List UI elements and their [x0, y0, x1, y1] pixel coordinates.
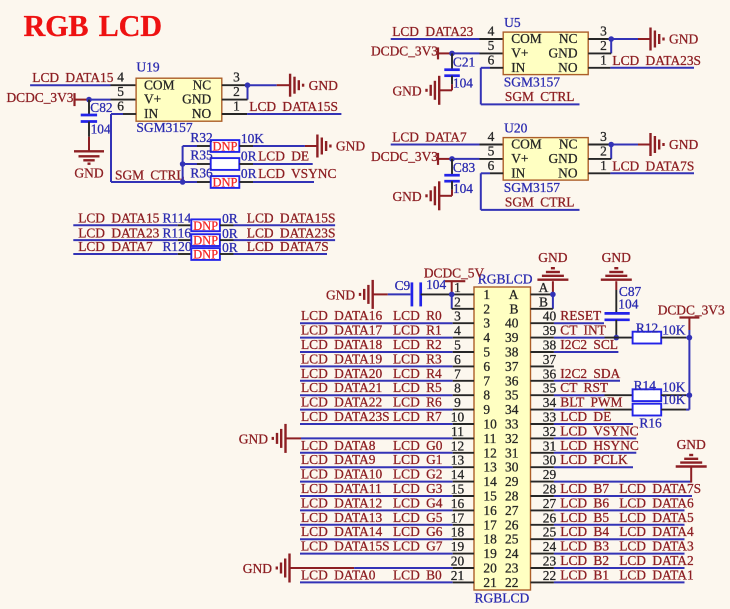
svg-text:15: 15: [451, 482, 465, 497]
wire U19 IN to SGM_CTRL: [111, 114, 183, 182]
wire C82 to GND: [88, 137, 90, 152]
svg-text:28: 28: [543, 482, 557, 497]
svg-text:LCD DATA22: LCD DATA22: [301, 395, 382, 410]
svg-text:26: 26: [505, 517, 519, 532]
svg-text:22: 22: [505, 575, 518, 590]
wire net LCD DATA14 to RGBLCD pin 18: [300, 538, 474, 540]
svg-text:LCD DATA19: LCD DATA19: [301, 351, 382, 366]
svg-text:18: 18: [451, 525, 465, 540]
svg-text:I2C2 SCL: I2C2 SCL: [560, 337, 618, 352]
svg-text:LCD DATA15: LCD DATA15: [32, 70, 113, 85]
svg-text:40: 40: [543, 309, 557, 324]
svg-text:24: 24: [543, 539, 557, 554]
wire U5 IN to SGM_CTRL: [481, 68, 580, 105]
svg-text:38: 38: [505, 345, 519, 360]
svg-text:LCD DATA17: LCD DATA17: [301, 323, 382, 338]
svg-text:SGM3157: SGM3157: [504, 74, 561, 89]
svg-text:9: 9: [454, 395, 461, 410]
svg-text:6: 6: [488, 158, 495, 173]
svg-text:U5: U5: [504, 15, 521, 30]
svg-text:14: 14: [451, 467, 465, 482]
wire RGBLCD pin B tie: [531, 294, 553, 308]
wire DCDC_3V3 to U20 pin 5: [452, 158, 503, 160]
wire GND to C9: [373, 293, 411, 295]
svg-text:R120: R120: [163, 239, 192, 254]
ground GND at R32: [317, 135, 365, 158]
svg-text:LCD DATA3: LCD DATA3: [619, 539, 694, 554]
junction U5 pins 3-2: [608, 36, 614, 42]
svg-text:LCD DATA7S: LCD DATA7S: [612, 158, 694, 173]
node LCD DATA8 / LCD G0: [301, 438, 443, 453]
wire net LCD DATA23S to RGBLCD pin 10: [300, 423, 474, 425]
svg-text:37: 37: [543, 352, 557, 367]
svg-text:LCD VSYNC: LCD VSYNC: [258, 166, 336, 181]
resistor R32: [183, 130, 318, 154]
svg-text:COM: COM: [511, 31, 542, 46]
svg-text:LCD DATA7: LCD DATA7: [392, 130, 467, 145]
svg-text:LCD PCLK: LCD PCLK: [560, 452, 628, 467]
svg-text:5: 5: [117, 84, 124, 99]
svg-text:NO: NO: [558, 60, 578, 75]
svg-text:10K: 10K: [241, 131, 264, 146]
svg-text:I2C2 SDA: I2C2 SDA: [560, 366, 620, 381]
svg-text:LCD B4: LCD B4: [560, 524, 609, 539]
svg-text:12: 12: [451, 438, 464, 453]
svg-text:C82: C82: [90, 100, 112, 115]
svg-text:27: 27: [543, 496, 557, 511]
svg-text:LCD DATA21: LCD DATA21: [301, 380, 382, 395]
svg-text:33: 33: [505, 417, 519, 432]
node LCD B3 / LCD DATA3: [560, 539, 694, 554]
svg-text:11: 11: [451, 424, 464, 439]
svg-text:DNP: DNP: [212, 140, 237, 154]
svg-text:RGB LCD: RGB LCD: [24, 9, 162, 43]
svg-text:4: 4: [488, 129, 495, 144]
pin numbers U19 right: [233, 70, 240, 114]
svg-text:B: B: [509, 301, 518, 316]
svg-text:16: 16: [451, 496, 465, 511]
svg-text:LCD DATA1: LCD DATA1: [619, 567, 693, 582]
svg-text:2: 2: [483, 301, 490, 316]
svg-text:LCD DATA2: LCD DATA2: [619, 553, 693, 568]
svg-text:SGM CTRL: SGM CTRL: [505, 195, 575, 210]
wire net BLT PWM RGBLCD row 9: [531, 409, 605, 411]
wire U20 pin 2 tie: [588, 145, 611, 159]
pin numbers RGBLCD right external: [539, 280, 557, 583]
component U19 SGM3157 body: [136, 77, 222, 121]
node LCD DATA19 / LCD R3: [301, 351, 442, 366]
svg-text:LCD R1: LCD R1: [393, 323, 442, 338]
svg-text:CT RST: CT RST: [560, 380, 608, 395]
svg-text:SGM3157: SGM3157: [136, 120, 193, 135]
svg-text:LCD G6: LCD G6: [393, 524, 443, 539]
svg-text:A: A: [509, 287, 519, 302]
wire DCDC_3V3 to U19 pin 5: [89, 99, 136, 101]
node LCD B6 / LCD DATA6: [560, 495, 694, 510]
svg-text:LCD DATA7S: LCD DATA7S: [619, 481, 701, 496]
node LCD DATA13 / LCD G5: [301, 510, 443, 525]
wire net LCD DATA22 to RGBLCD pin 9: [300, 409, 474, 411]
ground GND above pin A: [537, 250, 568, 280]
svg-text:21: 21: [483, 575, 496, 590]
junction at U19 V+ / C82: [86, 97, 92, 103]
capacitor C87: [605, 281, 642, 337]
svg-text:B: B: [539, 294, 548, 309]
svg-text:U19: U19: [136, 60, 159, 75]
wire net LCD DATA10 to RGBLCD pin 14: [300, 481, 474, 483]
svg-text:U20: U20: [504, 121, 527, 136]
svg-text:DNP: DNP: [193, 248, 218, 262]
wire DCDC_3V3 rail: [688, 330, 690, 410]
svg-text:LCD DATA12: LCD DATA12: [301, 495, 382, 510]
svg-text:RESET: RESET: [560, 308, 601, 323]
resistor R114: [73, 211, 335, 233]
ground GND at RGBLCD pin 11: [239, 424, 286, 453]
svg-text:9: 9: [483, 402, 490, 417]
svg-text:NO: NO: [192, 106, 212, 121]
svg-text:DNP: DNP: [193, 219, 218, 233]
wire U19 pin 2 tie: [222, 85, 248, 99]
svg-text:C9: C9: [395, 278, 411, 293]
svg-text:LCD G2: LCD G2: [393, 467, 443, 482]
svg-text:12: 12: [483, 445, 496, 460]
svg-text:R116: R116: [163, 225, 192, 240]
svg-text:4: 4: [454, 323, 461, 338]
resistor R35: [183, 148, 313, 170]
wire net LCD DATA21 to RGBLCD pin 8: [300, 394, 474, 396]
junction R36 tap: [180, 179, 186, 185]
svg-text:6: 6: [483, 359, 490, 374]
svg-text:5: 5: [488, 38, 495, 53]
svg-text:IN: IN: [511, 60, 525, 75]
wire U19 pin 1 net LCD_DATA15S: [222, 113, 342, 115]
ground GND at C83: [392, 181, 439, 210]
junction rail / R14: [687, 392, 693, 398]
svg-text:R12: R12: [636, 320, 658, 335]
wire net LCD DATA19 to RGBLCD pin 6: [300, 365, 474, 367]
svg-text:DCDC_3V3: DCDC_3V3: [658, 302, 725, 317]
svg-text:38: 38: [543, 338, 557, 353]
junction at U20 V+ / C83: [449, 156, 455, 162]
power DCDC_3V3 (U19): [7, 90, 90, 106]
svg-text:GND: GND: [182, 92, 211, 107]
svg-text:LCD G1: LCD G1: [393, 452, 443, 467]
pin numbers U5 left: [488, 24, 495, 68]
svg-text:35: 35: [505, 388, 519, 403]
wire net LCD_DATA23 to U5 pin 4: [391, 38, 504, 40]
svg-text:LCD R6: LCD R6: [393, 395, 442, 410]
wire net LCD DATA13 to RGBLCD pin 17: [300, 524, 474, 526]
svg-text:21: 21: [451, 568, 464, 583]
svg-text:SGM3157: SGM3157: [504, 180, 561, 195]
svg-text:GND: GND: [239, 431, 268, 446]
svg-text:GND: GND: [602, 250, 631, 265]
svg-text:15: 15: [483, 489, 497, 504]
svg-text:30: 30: [543, 453, 557, 468]
svg-text:LCD B5: LCD B5: [560, 510, 609, 525]
svg-text:35: 35: [543, 381, 557, 396]
wire net CT RST RGBLCD row 8: [531, 394, 605, 396]
svg-text:LCD DATA15S: LCD DATA15S: [301, 539, 390, 554]
component U5 SGM3157 body: [503, 31, 588, 75]
svg-text:3: 3: [600, 129, 607, 144]
svg-text:2: 2: [600, 38, 607, 53]
svg-text:LCD DE: LCD DE: [560, 409, 611, 424]
svg-text:LCD R2: LCD R2: [393, 337, 442, 352]
svg-text:LCD DATA15S: LCD DATA15S: [247, 211, 336, 226]
svg-text:LCD DATA23S: LCD DATA23S: [247, 225, 336, 240]
wire C83 to GND: [439, 190, 452, 196]
wire net LCD VSYNC RGBLCD row 11: [531, 437, 637, 439]
power DCDC_3V3 (U20): [371, 149, 452, 165]
svg-text:IN: IN: [144, 106, 158, 121]
svg-text:LCD DATA7: LCD DATA7: [78, 239, 153, 254]
svg-text:25: 25: [505, 532, 519, 547]
svg-text:20: 20: [451, 554, 465, 569]
svg-text:C83: C83: [453, 160, 476, 175]
svg-text:GND: GND: [309, 78, 338, 93]
svg-text:36: 36: [543, 366, 557, 381]
svg-text:7: 7: [454, 366, 461, 381]
node LCD DATA21 / LCD R5: [301, 380, 442, 395]
capacitor C83: [444, 159, 475, 196]
pin numbers RGBLCD internal: [483, 287, 518, 590]
wire net LCD DATA3 RGBLCD row 19: [531, 553, 685, 555]
svg-text:R32: R32: [190, 130, 212, 145]
resistor R120: [73, 239, 328, 261]
svg-text:LCD DATA23: LCD DATA23: [78, 225, 159, 240]
svg-text:25: 25: [543, 525, 557, 540]
svg-text:29: 29: [543, 467, 557, 482]
svg-text:10K: 10K: [662, 392, 685, 407]
svg-text:LCD HSYNC: LCD HSYNC: [560, 438, 639, 453]
svg-text:104: 104: [618, 296, 638, 311]
wire net LCD DATA5 RGBLCD row 17: [531, 524, 685, 526]
svg-text:COM: COM: [511, 137, 542, 152]
svg-text:8: 8: [454, 381, 461, 396]
svg-text:5: 5: [483, 345, 490, 360]
wire RGBLCD pin 2 tie: [452, 294, 474, 308]
svg-text:V+: V+: [511, 151, 528, 166]
svg-text:36: 36: [505, 373, 519, 388]
node LCD B1 / LCD DATA1: [560, 567, 693, 582]
capacitor C21: [444, 53, 475, 90]
junction U20 pins 3-2: [608, 142, 614, 148]
svg-text:NC: NC: [193, 77, 212, 92]
svg-text:SGM CTRL: SGM CTRL: [505, 89, 575, 104]
wire U5 pin 1 net LCD_DATA23S: [588, 67, 694, 69]
ground GND at C21: [392, 76, 439, 105]
node LCD DATA0 / LCD B0: [301, 567, 442, 582]
pin numbers U20 right: [600, 129, 607, 173]
svg-text:R36: R36: [190, 166, 213, 181]
svg-text:V+: V+: [144, 92, 161, 107]
svg-text:GND: GND: [74, 165, 103, 180]
svg-text:COM: COM: [144, 77, 175, 92]
svg-text:SGM CTRL: SGM CTRL: [115, 168, 185, 183]
svg-text:DCDC_3V3: DCDC_3V3: [371, 44, 438, 59]
resistor R12: [605, 320, 690, 343]
svg-text:RGBLCD: RGBLCD: [478, 272, 533, 287]
junction RGBLCD pin A: [550, 292, 556, 298]
svg-text:3: 3: [454, 309, 461, 324]
svg-text:5: 5: [454, 338, 461, 353]
svg-text:LCD DATA4: LCD DATA4: [619, 524, 694, 539]
wire RGBLCD pin 29 to GND: [531, 467, 692, 483]
svg-text:31: 31: [543, 438, 556, 453]
power DCDC_3V3 (pull-ups): [658, 302, 725, 330]
svg-text:LCD R3: LCD R3: [393, 351, 442, 366]
svg-text:32: 32: [543, 424, 556, 439]
svg-text:LCD B0: LCD B0: [393, 567, 442, 582]
connector J-RGBLCD body: [474, 287, 531, 590]
svg-text:0R: 0R: [222, 226, 238, 241]
svg-text:NC: NC: [559, 31, 578, 46]
wire net LCD DATA12 to RGBLCD pin 16: [300, 509, 474, 511]
svg-text:LCD R5: LCD R5: [393, 380, 442, 395]
svg-text:LCD DATA15: LCD DATA15: [78, 211, 159, 226]
svg-text:1: 1: [600, 158, 607, 173]
ground GND at U19 pin3: [290, 74, 338, 97]
svg-text:26: 26: [543, 510, 557, 525]
node LCD B5 / LCD DATA5: [560, 510, 694, 525]
svg-text:LCD R7: LCD R7: [393, 409, 442, 424]
node LCD DATA12 / LCD G4: [301, 495, 443, 510]
wire net I2C2 SDA RGBLCD row 7: [531, 380, 621, 382]
svg-text:DCDC_3V3: DCDC_3V3: [371, 149, 438, 164]
svg-text:LCD DATA18: LCD DATA18: [301, 337, 382, 352]
svg-text:DNP: DNP: [193, 234, 218, 248]
node LCD DATA20 / LCD R4: [301, 366, 442, 381]
node LCD DATA17 / LCD R1: [301, 323, 442, 338]
wire net LCD DATA4 RGBLCD row 18: [531, 538, 685, 540]
svg-text:LCD DATA6: LCD DATA6: [619, 495, 694, 510]
svg-text:LCD B2: LCD B2: [560, 553, 609, 568]
svg-text:10: 10: [483, 417, 497, 432]
svg-text:BLT PWM: BLT PWM: [560, 395, 622, 410]
svg-text:31: 31: [505, 445, 518, 460]
pin numbers U19 left: [117, 70, 124, 114]
svg-text:GND: GND: [326, 287, 355, 302]
node LCD DATA9 / LCD G1: [301, 452, 443, 467]
svg-text:5: 5: [488, 143, 495, 158]
svg-text:3: 3: [233, 70, 240, 85]
wire net LCD DATA9 to RGBLCD pin 13: [300, 466, 474, 468]
svg-text:19: 19: [451, 539, 465, 554]
node LCD B2 / LCD DATA2: [560, 553, 693, 568]
node LCD DATA16 / LCD R0: [301, 308, 442, 323]
svg-text:LCD DATA23S: LCD DATA23S: [612, 53, 701, 68]
svg-text:LCD DATA14: LCD DATA14: [301, 524, 382, 539]
svg-text:GND: GND: [548, 46, 577, 61]
svg-text:GND: GND: [669, 137, 698, 152]
ground GND above C87: [601, 250, 632, 280]
svg-text:17: 17: [451, 510, 465, 525]
node LCD DATA23S / LCD R7: [301, 409, 442, 424]
svg-text:33: 33: [543, 410, 557, 425]
wire net LCD_DATA7 to U20 pin 4: [391, 144, 504, 146]
svg-text:GND: GND: [336, 139, 365, 154]
svg-text:LCD G5: LCD G5: [393, 510, 443, 525]
svg-text:40: 40: [505, 316, 519, 331]
wire C21 to GND: [439, 84, 452, 90]
component U20 SGM3157 body: [503, 137, 588, 181]
svg-text:LCD DATA11: LCD DATA11: [301, 481, 382, 496]
svg-text:LCD DATA23S: LCD DATA23S: [301, 409, 390, 424]
wire net LCD DATA6 RGBLCD row 16: [531, 509, 685, 511]
svg-text:27: 27: [505, 503, 519, 518]
svg-text:3: 3: [600, 24, 607, 39]
svg-text:2: 2: [233, 84, 240, 99]
svg-text:DCDC_3V3: DCDC_3V3: [7, 90, 74, 105]
svg-text:GND: GND: [538, 250, 567, 265]
svg-text:14: 14: [483, 474, 497, 489]
ground GND at pin 29: [676, 437, 707, 467]
svg-text:NC: NC: [559, 137, 578, 152]
svg-text:37: 37: [505, 359, 519, 374]
wire RGBLCD pin A to GND: [531, 281, 553, 294]
svg-text:LCD DATA20: LCD DATA20: [301, 366, 382, 381]
svg-text:C21: C21: [453, 54, 475, 69]
svg-text:LCD DATA9: LCD DATA9: [301, 452, 376, 467]
wire GND to RGBLCD pin 20: [290, 567, 475, 569]
svg-text:LCD VSYNC: LCD VSYNC: [560, 423, 638, 438]
ground GND at U5 pin3: [651, 28, 699, 51]
svg-text:LCD B6: LCD B6: [560, 495, 609, 510]
svg-text:R114: R114: [163, 211, 192, 226]
wire net LCD HSYNC RGBLCD row 12: [531, 452, 637, 454]
svg-text:0R: 0R: [241, 148, 257, 163]
node LCD DATA18 / LCD R2: [301, 337, 442, 352]
svg-text:GND: GND: [243, 561, 272, 576]
svg-text:R16: R16: [639, 416, 662, 431]
wire net LCD DATA1 RGBLCD row 21: [531, 581, 685, 583]
wire RGBLCD pin stub row 6: [531, 365, 554, 367]
wire U5 pin 2 tie: [588, 39, 611, 53]
svg-text:23: 23: [543, 554, 557, 569]
svg-text:2: 2: [600, 143, 607, 158]
ground GND at U20 pin3: [651, 133, 699, 156]
wire net LCD DATA17 to RGBLCD pin 4: [300, 337, 474, 339]
svg-text:39: 39: [505, 330, 519, 345]
svg-text:10K: 10K: [662, 323, 685, 338]
svg-text:R35: R35: [190, 148, 213, 163]
power DCDC_3V3 (U5): [371, 44, 452, 60]
capacitor C82: [81, 100, 113, 137]
wire U19 pin 3 to GND: [222, 84, 290, 86]
svg-text:NO: NO: [558, 165, 578, 180]
wire net LCD DATA8 to RGBLCD pin 12: [300, 452, 474, 454]
svg-text:LCD DATA5: LCD DATA5: [619, 510, 694, 525]
svg-text:4: 4: [483, 330, 490, 345]
svg-text:104: 104: [453, 181, 473, 196]
wire GND to RGBLCD pin 11: [286, 437, 475, 439]
wire net RESET RGBLCD row 3: [531, 322, 605, 324]
wire net I2C2 SCL RGBLCD row 5: [531, 351, 619, 353]
svg-text:LCD R4: LCD R4: [393, 366, 442, 381]
svg-text:13: 13: [483, 460, 497, 475]
node LCD DATA15S / LCD G7: [301, 539, 443, 554]
svg-text:6: 6: [454, 352, 461, 367]
ground GND at C9: [326, 280, 373, 309]
svg-text:6: 6: [488, 52, 495, 67]
wire net LCD DATA20 to RGBLCD pin 7: [300, 380, 474, 382]
svg-text:2: 2: [454, 294, 461, 309]
svg-text:6: 6: [117, 99, 124, 114]
ground GND below C82: [74, 151, 104, 180]
wire U5 pin 3 to GND: [588, 38, 650, 40]
svg-text:LCD R0: LCD R0: [393, 308, 442, 323]
